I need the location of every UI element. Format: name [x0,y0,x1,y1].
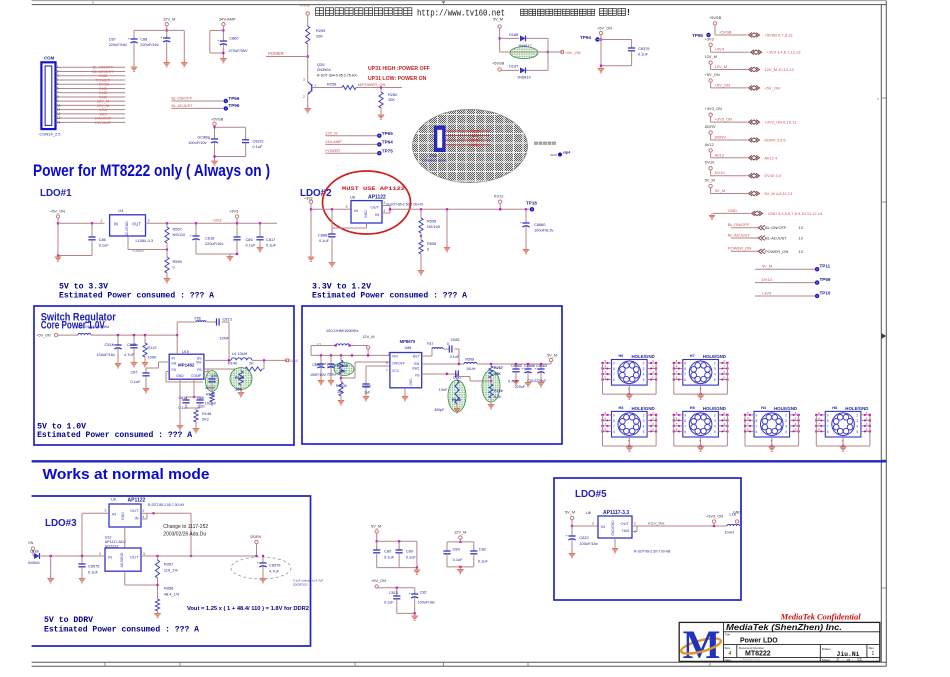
svg-text:8: 8 [827,419,829,423]
svg-text:3: 3 [346,205,348,209]
svg-text:100-OHM/100MHz: 100-OHM/100MHz [77,324,109,329]
svg-text:5: 5 [785,430,787,434]
svg-text:2K2: 2K2 [202,417,209,422]
svg-text:100F/16V: 100F/16V [310,373,327,377]
svg-text:GND 3,4,5,6,7,8,9,10,11,12: GND 3,4,5,6,7,8,9,10,11,12,13 [768,211,823,216]
svg-text:10uH: 10uH [724,530,733,535]
svg-text:C8321: C8321 [252,139,263,144]
svg-text:12V_M: 12V_M [715,64,728,69]
svg-text:IN: IN [114,222,118,227]
svg-text:SW: SW [414,362,420,366]
svg-text:R-SOT-89-2.50-7.00-HB: R-SOT-89-2.50-7.00-HB [634,550,671,554]
svg-text:POWER: POWER [268,51,284,56]
svg-text:T: T [842,439,844,443]
svg-text:A11xx_Max: A11xx_Max [648,522,665,526]
svg-text:FB: FB [172,368,177,372]
svg-text:5V to 3.3V: 5V to 3.3V [59,283,108,292]
svg-text:IN: IN [601,524,605,529]
svg-text:10nF: 10nF [439,388,448,392]
svg-text:IN: IN [354,208,358,213]
svg-text:3: 3 [643,419,645,423]
svg-text:VCC: VCC [392,369,400,373]
svg-text:DDRV: DDRV [705,124,716,129]
svg-text:4: 4 [714,424,716,428]
svg-text:TP96: TP96 [228,103,239,108]
svg-text:+5V_ON: +5V_ON [565,50,581,55]
svg-text:OUT: OUT [130,508,139,513]
svg-text:4: 4 [643,424,645,428]
svg-text:TP11: TP11 [820,264,831,269]
svg-text:R2345: R2345 [337,364,348,368]
svg-text:+5V50: +5V50 [299,4,310,8]
svg-text:TP65: TP65 [382,131,393,136]
svg-text:110_1%: 110_1% [164,568,179,573]
svg-text:Estimated Power consumed : ???: Estimated Power consumed : ??? A [44,625,199,635]
svg-text:C8575: C8575 [88,564,99,569]
svg-text:LDO#3: LDO#3 [45,518,77,529]
svg-text:C88: C88 [140,37,147,42]
svg-text:2005/1/20: 2005/1/20 [741,657,761,662]
svg-text:+3V3: +3V3 [715,47,725,52]
svg-text:BST: BST [413,355,420,359]
svg-text:H5: H5 [690,405,696,410]
svg-text:7: 7 [613,424,615,428]
svg-text:16: 16 [358,83,362,87]
svg-text:6: 6 [756,430,758,434]
svg-text:C86: C86 [99,237,106,242]
svg-text:100-OHM/100MHz: 100-OHM/100MHz [326,328,358,333]
svg-text:F57: F57 [427,342,433,346]
svg-text:SW1: SW1 [412,367,419,371]
svg-text:12V_M: 12V_M [454,530,466,535]
svg-text:GND: GND [364,210,368,218]
svg-text:24V-AMP: 24V-AMP [325,139,342,144]
svg-text:220uF: 220uF [515,385,526,389]
svg-text:C87: C87 [109,37,116,42]
svg-text:8: 8 [613,419,615,423]
svg-text:R557: R557 [173,227,182,232]
svg-text:POWER: POWER [325,148,340,153]
svg-text:Date:: Date: [725,658,732,662]
svg-text:U15: U15 [182,350,189,354]
svg-text:+3V3_ON: +3V3_ON [706,514,723,519]
svg-text:BL-ON/OFF: BL-ON/OFF [728,222,750,227]
svg-text:13: 13 [798,236,803,241]
svg-text:3: 3 [303,78,305,82]
svg-text:D188: D188 [509,32,518,37]
svg-text:BL-ADJUST: BL-ADJUST [171,103,193,108]
svg-text:OUT: OUT [130,555,139,560]
svg-text:+3V3_ON: +3V3_ON [705,106,722,111]
svg-text:C851: C851 [451,337,460,342]
svg-text:NS/110: NS/110 [173,232,187,237]
svg-text:+3V3_ON 6,10,11: +3V3_ON 6,10,11 [764,120,797,125]
svg-text:5: 5 [714,378,716,382]
svg-text:VIN: VIN [392,355,398,359]
svg-text:14: 14 [57,120,61,124]
svg-text:GND: GND [733,511,741,515]
svg-text:10K: 10K [337,390,344,394]
svg-text:9: 9 [613,362,615,366]
svg-text:AP1117-ADJ: AP1117-ADJ [105,540,126,544]
svg-text:0.1uF: 0.1uF [478,559,489,564]
svg-text:R957: R957 [164,562,173,567]
svg-text:C818: C818 [205,236,214,241]
svg-text:DV10: DV10 [762,277,773,282]
svg-text:2: 2 [714,413,716,417]
svg-text:Estimated Power consumed : ???: Estimated Power consumed : ??? A [37,430,192,440]
svg-text:4.7UF: 4.7UF [508,380,519,384]
svg-text:C808: C808 [362,385,371,389]
svg-text:0.1uF: 0.1uF [384,555,395,560]
svg-text:7: 7 [386,369,388,373]
svg-text:COM: COM [44,55,55,60]
svg-text:OUT: OUT [621,521,630,526]
svg-text:IN: IN [172,357,176,361]
svg-text:BL-ADJUST: BL-ADJUST [765,236,787,241]
svg-text:8: 8 [684,367,686,371]
svg-text:100K: 100K [148,355,157,360]
svg-text:24V-AMP: 24V-AMP [219,17,236,22]
svg-text:100uF/10v: 100uF/10v [188,140,206,145]
svg-text:GND: GND [409,378,413,386]
svg-text:Title: Title [725,633,731,637]
svg-text:T: T [770,439,772,443]
svg-text:GND: GND [121,512,125,520]
svg-text:5V_M: 5V_M [371,524,381,529]
svg-text:0.1uF: 0.1uF [450,355,460,359]
svg-text:AP1122: AP1122 [368,195,386,201]
svg-text:7: 7 [684,373,686,377]
svg-text:T: T [628,387,630,391]
svg-text:100nF: 100nF [205,386,216,390]
svg-text:IN: IN [135,516,139,521]
svg-text:1: 1 [388,352,390,356]
svg-text:C86: C86 [246,237,253,242]
svg-text:D187: D187 [509,64,518,69]
svg-text:R559: R559 [173,259,182,264]
svg-text:4: 4 [729,651,732,657]
svg-text:6: 6 [684,378,686,382]
svg-text:M: M [683,622,721,667]
svg-text:C860: C860 [229,36,239,41]
svg-text:12V_M 10,12,13: 12V_M 10,12,13 [764,67,794,72]
svg-text:http://www.tv160.net: http://www.tv160.net [417,8,505,19]
svg-text:0.1uF: 0.1uF [453,557,464,562]
svg-text:0.1uF: 0.1uF [252,144,263,149]
svg-text:5V_M: 5V_M [493,17,503,22]
svg-text:POWER_ON: POWER_ON [765,249,788,254]
svg-text:C89: C89 [384,549,391,554]
svg-text:5V to DDRV: 5V to DDRV [44,616,93,625]
svg-text:3.3V to 1.2V: 3.3V to 1.2V [312,283,371,292]
svg-text:DDRV: DDRV [715,135,727,140]
svg-text:2: 2 [785,413,787,417]
svg-text:TP64: TP64 [382,140,393,145]
svg-text:NS/100: NS/100 [427,224,441,229]
svg-text:5V_M 4,8,11,13: 5V_M 4,8,11,13 [764,191,793,196]
svg-text:BL-ON/OFF: BL-ON/OFF [171,96,192,101]
svg-text:0.1uF: 0.1uF [88,570,99,575]
svg-text:13: 13 [798,225,803,230]
svg-text:12V_M: 12V_M [163,17,175,22]
svg-text:Rev: Rev [869,646,875,650]
svg-text:SW: SW [196,361,202,365]
svg-text:+3V3 3,4,6,7,12,13: +3V3 3,4,6,7,12,13 [767,50,802,55]
svg-text:TP75: TP75 [382,148,393,153]
svg-text:7: 7 [756,424,758,428]
svg-text:U12: U12 [105,536,112,540]
svg-text:0.1uF: 0.1uF [99,243,110,248]
svg-text:DV10: DV10 [715,170,726,175]
svg-text:U4: U4 [118,208,124,213]
svg-text:0.1uF: 0.1uF [246,243,257,248]
svg-text:100uF/16v: 100uF/16v [579,541,597,546]
svg-text:12V_M: 12V_M [325,130,337,135]
svg-text:2K: 2K [249,361,254,366]
svg-text:R148: R148 [202,411,211,416]
svg-text:TP66: TP66 [228,96,239,101]
svg-text:+5V_ON: +5V_ON [36,334,51,338]
svg-text:MediaTek (ShenZhen) Inc.: MediaTek (ShenZhen) Inc. [726,622,842,632]
svg-text:13: 13 [857,657,862,662]
svg-text:1N5819: 1N5819 [517,75,531,80]
svg-text:R2608: R2608 [336,384,347,388]
svg-text:R147: R147 [148,345,157,350]
svg-text:3: 3 [643,367,645,371]
svg-text:OUT: OUT [371,205,380,210]
svg-text:48.4_1%: 48.4_1% [164,592,180,597]
svg-text:10UH: 10UH [466,367,476,371]
svg-text:3: 3 [148,219,150,223]
svg-text:2: 2 [643,413,645,417]
svg-text:C82: C82 [420,591,427,595]
svg-text:Size: Size [725,646,731,650]
svg-text:+5V_ON: +5V_ON [50,209,65,214]
svg-text:+5VSB: +5VSB [211,116,224,121]
svg-text:4.7uF: 4.7uF [269,569,280,574]
svg-text:10NF: 10NF [220,336,230,341]
svg-text:C8886: C8886 [524,364,535,368]
svg-text:C8860: C8860 [534,222,546,227]
svg-text:10K: 10K [388,97,395,102]
svg-text:C82: C82 [479,547,486,552]
svg-text:R267: R267 [494,366,503,370]
svg-text:4: 4 [384,209,386,213]
svg-text:+3V3: +3V3 [212,218,222,223]
svg-text:+5V_ON: +5V_ON [597,26,612,31]
svg-text:20K: 20K [316,34,323,39]
svg-text:C8883: C8883 [536,364,547,368]
svg-text:4: 4 [643,373,645,377]
svg-text:ON: ON [28,541,34,545]
svg-text:6: 6 [613,430,615,434]
svg-text:R-SOT-89-2.50-7.00-HX: R-SOT-89-2.50-7.00-HX [387,203,424,207]
svg-text:R266: R266 [494,389,503,393]
svg-text:5: 5 [714,430,716,434]
svg-text:10ohm: 10ohm [205,402,216,406]
svg-text:8: 8 [756,419,758,423]
svg-text:AV12: AV12 [705,142,714,147]
svg-text:!: ! [627,7,630,17]
svg-text:24V-AMP: 24V-AMP [95,120,112,125]
svg-text:+5VSB 6,7,8,13: +5VSB 6,7,8,13 [764,33,793,38]
svg-text:+5VSB: +5VSB [719,30,732,35]
svg-text:LDO#5: LDO#5 [575,489,607,500]
svg-text:5: 5 [856,430,858,434]
svg-text:0.1uF: 0.1uF [131,379,142,384]
svg-text:MUST USE AP1122: MUST USE AP1122 [342,186,405,192]
svg-text:U6: U6 [586,510,591,515]
svg-text:Change to 1117-252: Change to 1117-252 [163,524,208,530]
svg-text:Drawn:: Drawn: [822,647,832,651]
svg-text:Power LDO: Power LDO [740,638,778,645]
svg-text:12V_M: 12V_M [362,334,374,339]
svg-text:6: 6 [613,378,615,382]
svg-text:4: 4 [714,373,716,377]
svg-text:MP1482: MP1482 [178,363,195,368]
svg-text:100uF/6.3v: 100uF/6.3v [534,228,554,233]
svg-text:BL-ADJUST: BL-ADJUST [728,232,750,237]
svg-text:T: T [699,387,701,391]
svg-text:UP31 HIGH :POWER OFF: UP31 HIGH :POWER OFF [368,66,430,72]
svg-text:Power for MT8222 only ( Always: Power for MT8222 only ( Always on ) [33,161,270,180]
svg-text:5: 5 [643,378,645,382]
svg-text:+3V3: +3V3 [762,290,772,295]
svg-text:FB: FB [415,374,420,378]
svg-text:100uF/16v: 100uF/16v [418,601,436,605]
svg-text:390pF: 390pF [434,408,445,412]
svg-text:2: 2 [643,362,645,366]
svg-text:3: 3 [714,367,716,371]
svg-text:Vout = 1.25 x ( 1 + 48.4/ 110: Vout = 1.25 x ( 1 + 48.4/ 110 ) = 1.8V f… [187,606,309,612]
svg-text:6: 6 [386,361,388,365]
svg-text:R259: R259 [316,28,325,33]
svg-text:5V_M: 5V_M [547,353,557,358]
svg-text:Works at normal mode: Works at normal mode [43,467,210,483]
svg-text:POWER_ON: POWER_ON [362,82,385,87]
svg-text:12V_M: 12V_M [705,54,717,59]
svg-text:H6: H6 [619,353,625,358]
svg-text:C813: C813 [223,317,232,322]
svg-text:13: 13 [798,249,803,254]
svg-text:+5V_ON: +5V_ON [764,85,780,90]
svg-text:EN: EN [172,362,177,366]
svg-text:8: 8 [613,367,615,371]
svg-text:4: 4 [856,424,858,428]
svg-text:R258: R258 [327,82,336,87]
svg-text:H4: H4 [761,405,767,410]
svg-text:1uF: 1uF [364,391,371,395]
svg-text:2003/03/11: 2003/03/11 [293,583,308,587]
svg-text:IN: IN [375,212,379,217]
svg-text:ADJ/GND: ADJ/GND [120,552,124,567]
svg-text:of: of [847,658,850,662]
svg-text:2: 2 [384,201,386,205]
svg-text:Estimated Power consumed : ???: Estimated Power consumed : ??? A [59,291,214,301]
svg-text:POWER_ON: POWER_ON [728,246,751,251]
svg-text:TP10: TP10 [820,291,831,296]
svg-text:L1084-3.3: L1084-3.3 [136,238,154,243]
svg-text:ON/OFF: ON/OFF [392,362,405,366]
svg-text:0.1uF: 0.1uF [319,238,330,243]
svg-text:+3V3: +3V3 [229,209,238,214]
svg-text:C8881: C8881 [318,233,329,238]
svg-text:DV10 3,4: DV10 3,4 [764,173,781,178]
svg-text:220uF/16v: 220uF/16v [140,42,158,47]
svg-text:2: 2 [856,413,858,417]
svg-text:R958: R958 [164,586,173,591]
svg-text:220uF/16v: 220uF/16v [205,241,223,246]
svg-text:T: T [699,439,701,443]
svg-text:H7: H7 [690,353,695,358]
svg-text:F56: F56 [195,317,201,321]
svg-text:BL-ON/OFF: BL-ON/OFF [765,225,787,230]
svg-text:+5V_ON: +5V_ON [715,82,731,87]
svg-text:2: 2 [99,552,101,556]
svg-text:R158: R158 [452,398,461,402]
svg-text:CON14_2.5: CON14_2.5 [39,132,61,137]
svg-text:H3: H3 [619,405,625,410]
svg-text:TP16: TP16 [526,201,537,206]
svg-text:UP31 LOW: POWER ON: UP31 LOW: POWER ON [368,76,427,82]
svg-text:2N3904: 2N3904 [317,67,331,72]
svg-text:TP69: TP69 [820,277,831,282]
svg-text:IN: IN [108,555,112,560]
svg-text:R508: R508 [465,358,474,362]
svg-text:7: 7 [613,373,615,377]
svg-text:7: 7 [827,424,829,428]
svg-text:C8885: C8885 [511,364,522,368]
svg-text:+5VSB: +5VSB [709,15,722,20]
svg-text:1: 1 [872,651,875,657]
svg-text:DV10: DV10 [705,160,716,165]
svg-text:470uF/35V: 470uF/35V [229,48,248,53]
svg-text:KV12: KV12 [494,194,504,199]
svg-text:9: 9 [684,413,686,417]
svg-text:TAB: TAB [622,528,630,533]
svg-text:D189: D189 [30,550,39,554]
svg-text:LDO#1: LDO#1 [40,188,72,199]
svg-text:C815: C815 [389,591,398,595]
svg-text:5V_M: 5V_M [705,178,715,183]
svg-text:ADJ/GND: ADJ/GND [125,221,129,237]
svg-text:+3V3_ON: +3V3_ON [715,117,733,122]
svg-text:2003/02/26 Ada.Du: 2003/02/26 Ada.Du [163,531,206,537]
svg-text:7: 7 [684,424,686,428]
svg-text:H8: H8 [832,405,838,410]
svg-text:+3V3: +3V3 [705,36,714,41]
svg-text:0.1uF: 0.1uF [266,243,277,248]
svg-text:eip4: eip4 [563,151,570,155]
svg-text:TP95: TP95 [692,33,703,38]
svg-text:3: 3 [105,509,107,513]
svg-text:C88: C88 [197,396,204,400]
svg-text:0.1uF: 0.1uF [638,52,649,57]
svg-text:IN: IN [112,512,116,517]
svg-text:DV10: DV10 [289,358,300,363]
svg-text:MediaTek Confidential: MediaTek Confidential [780,612,862,622]
svg-text:4: 4 [143,515,145,519]
svg-text:5: 5 [643,430,645,434]
svg-text:L4 10UH: L4 10UH [232,351,248,356]
svg-text:2: 2 [634,522,636,526]
svg-text:3: 3 [143,552,145,556]
svg-text:C80: C80 [406,549,414,554]
svg-text:220uF/16v: 220uF/16v [109,42,127,47]
svg-text:C8576: C8576 [269,563,280,568]
svg-text:C8885: C8885 [312,363,323,367]
